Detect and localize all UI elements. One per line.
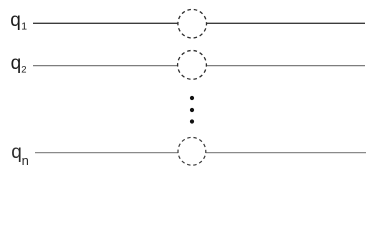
wire qn [35, 152, 366, 154]
ellipsis dot middle [190, 108, 194, 112]
wire q2 [33, 65, 365, 67]
dashed gate circle on q2 [178, 51, 207, 80]
dashed gate circle on q1 [178, 9, 207, 38]
svg-text:1: 1 [21, 21, 27, 33]
ellipsis dot top [190, 96, 194, 100]
svg-text:q: q [11, 53, 22, 74]
wire q1 [33, 22, 365, 24]
svg-text:n: n [22, 153, 29, 168]
svg-text:q: q [11, 142, 22, 163]
ellipsis dot bottom [190, 119, 194, 123]
svg-text:2: 2 [21, 65, 26, 76]
dashed gate circle on qn [178, 137, 206, 165]
svg-text:q: q [10, 10, 21, 31]
